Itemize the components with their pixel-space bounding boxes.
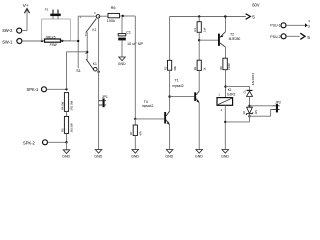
svg-text:GND: GND — [221, 154, 229, 158]
svg-text:GND: GND — [94, 154, 102, 158]
wire rail right of R6 — [120, 15, 136, 17]
svg-text:C1: C1 — [126, 30, 131, 34]
connector SPK-1 — [27, 87, 67, 92]
diode D1 1N4004 — [244, 72, 255, 106]
relay contact K1a — [86, 12, 100, 32]
ground — [94, 150, 102, 159]
svg-text:SW-2: SW-2 — [2, 28, 13, 33]
ground — [131, 150, 139, 159]
power V+ arrow — [23, 3, 30, 31]
junction — [65, 141, 67, 143]
resistor R8 150R — [219, 58, 231, 70]
svg-text:100k: 100k — [107, 19, 115, 23]
wire main vertical — [98, 16, 100, 149]
junction — [122, 15, 124, 17]
junction — [86, 51, 88, 53]
resistor R2 56k — [163, 60, 176, 70]
arrow 60V rail — [246, 3, 260, 20]
svg-text:GND: GND — [62, 155, 70, 159]
svg-text:60V: 60V — [252, 3, 260, 8]
node S1 stub wire — [76, 15, 82, 73]
wire T2 collector to relay — [225, 70, 227, 98]
wire R2 down to T4 collector — [169, 70, 171, 111]
resistor R7 47k — [129, 119, 142, 150]
fuse F2 (bypass contact bar) — [45, 7, 61, 19]
junction — [134, 118, 136, 120]
svg-text:5: 5 — [252, 15, 255, 20]
connector SW-2 — [2, 28, 27, 33]
svg-text:S1: S1 — [76, 69, 81, 73]
wire to diode column bottom — [225, 121, 249, 123]
connector SPK-2 — [23, 140, 67, 146]
wire T1 base — [170, 96, 195, 98]
wire column A rail corner down — [169, 17, 171, 61]
junction — [248, 105, 250, 107]
wire SW-1 to resistor — [22, 40, 45, 42]
module outline box — [42, 19, 71, 41]
svg-text:D2: D2 — [242, 111, 246, 115]
jumper JP2 — [272, 101, 281, 113]
transistor T1 mpsa42 — [172, 79, 199, 103]
svg-text:mpsa42: mpsa42 — [172, 84, 184, 88]
transistor T4 mpsa42 — [142, 100, 170, 125]
junction flyback tap — [224, 85, 226, 87]
ground — [221, 150, 229, 159]
wire riser to contact column — [67, 52, 88, 90]
svg-text:R4 5W: R4 5W — [60, 101, 64, 110]
resistor R1 1M — [193, 17, 206, 61]
svg-text:1N4004: 1N4004 — [251, 72, 255, 85]
svg-text:GND: GND — [131, 154, 139, 158]
wire — [66, 111, 68, 116]
wire JP2 bottom — [250, 110, 273, 117]
junction T1 base tap — [168, 95, 170, 97]
svg-text:PSU-1: PSU-1 — [270, 24, 280, 28]
svg-text:56k: 56k — [173, 66, 177, 71]
junction — [41, 40, 43, 42]
wire top rail left — [78, 15, 108, 17]
svg-text:GND: GND — [195, 154, 203, 158]
connector PSU-1 — [270, 19, 310, 28]
wire to node S1 column — [62, 40, 78, 42]
junction — [224, 121, 226, 123]
svg-text:5: 5 — [307, 35, 310, 40]
svg-text:T2: T2 — [230, 33, 234, 37]
junction — [97, 71, 99, 73]
ground — [165, 150, 173, 159]
wire flyback top — [226, 87, 250, 90]
junction T2 base tap — [198, 39, 200, 41]
svg-text:R8: R8 — [219, 66, 223, 70]
zener D2 — [242, 107, 258, 115]
svg-text:SPK-2: SPK-2 — [23, 140, 36, 145]
junction — [224, 15, 226, 17]
svg-text:PSU-2: PSU-2 — [270, 35, 280, 39]
svg-text:K1: K1 — [93, 62, 97, 66]
wire T2 base — [199, 39, 218, 41]
svg-text:150R: 150R — [227, 63, 231, 69]
wire T2 emitter to rail — [225, 17, 227, 32]
ground — [62, 150, 70, 159]
svg-text:GND: GND — [118, 62, 126, 66]
capacitor C1 10uF NP — [118, 16, 143, 57]
svg-text:47k: 47k — [139, 131, 143, 136]
ground — [118, 57, 126, 66]
svg-text:SW-1: SW-1 — [2, 39, 13, 44]
wire zener bottom corner — [249, 114, 251, 122]
junction — [77, 40, 79, 42]
wire rail right section — [170, 16, 246, 18]
wire relay bottom — [224, 105, 226, 149]
resistor R4 2R2 5W — [60, 93, 73, 112]
wire contact mid segment — [86, 32, 88, 60]
wire — [66, 142, 68, 150]
wire — [66, 133, 68, 142]
svg-text:3k3 5W: 3k3 5W — [70, 123, 74, 133]
svg-text:R1: R1 — [193, 28, 197, 32]
svg-text:G2R2: G2R2 — [227, 92, 236, 96]
jumper JP1 — [99, 95, 108, 107]
svg-text:F2: F2 — [45, 7, 49, 11]
svg-text:R5: R5 — [60, 128, 64, 132]
junction — [248, 115, 250, 117]
wire T2 collector down — [225, 47, 227, 58]
svg-text:T1: T1 — [175, 79, 179, 83]
wire T1 emitter to ground — [198, 103, 200, 150]
svg-text:R6: R6 — [111, 6, 116, 10]
resistor R6 100k — [107, 6, 120, 23]
svg-text:2R2 5W: 2R2 5W — [70, 100, 74, 110]
wire T4 base — [135, 118, 164, 120]
svg-text:K1: K1 — [92, 28, 96, 32]
wire R6 corner down to T4 base — [134, 16, 136, 119]
svg-text:mpsa42: mpsa42 — [142, 104, 154, 108]
svg-text:SPK-1: SPK-1 — [27, 87, 40, 92]
ground — [195, 150, 203, 159]
junction rail col B — [198, 15, 200, 17]
svg-text:3: 3 — [308, 23, 310, 28]
svg-text:R3: R3 — [193, 66, 197, 70]
resistor R5 3k3 5W — [60, 116, 73, 133]
transistor T2 MJE350 — [218, 32, 241, 48]
relay contact K1b — [86, 59, 97, 71]
svg-text:MJE350: MJE350 — [229, 37, 241, 41]
relay coil K1 G2R2 — [217, 88, 236, 112]
resistor R3 1k — [193, 60, 206, 70]
svg-text:F5W: F5W — [50, 43, 58, 47]
wire JP2 top — [250, 105, 273, 107]
junction — [61, 40, 63, 42]
connector SW-1 — [2, 39, 22, 45]
resistor 0R1x5 F5W — [45, 35, 61, 47]
wire T4 emitter to ground — [169, 125, 171, 150]
svg-text:12V: 12V — [255, 110, 258, 115]
junction — [65, 88, 67, 90]
svg-text:GND: GND — [165, 154, 173, 158]
svg-text:R2: R2 — [163, 66, 167, 70]
wire R3 to T1 collector — [198, 70, 200, 91]
connector PSU-2 — [270, 33, 310, 40]
svg-text:R7: R7 — [129, 131, 133, 135]
svg-text:V+: V+ — [23, 3, 29, 9]
